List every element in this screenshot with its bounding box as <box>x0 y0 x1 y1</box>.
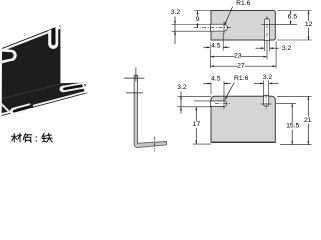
svg-text:R1.6: R1.6 <box>234 75 249 82</box>
svg-text:6.5: 6.5 <box>288 14 298 21</box>
svg-text:12: 12 <box>305 21 313 28</box>
svg-text:15.5: 15.5 <box>286 123 299 130</box>
svg-text:4.5: 4.5 <box>211 76 221 83</box>
svg-text:R1.6: R1.6 <box>236 0 251 7</box>
svg-text:21: 21 <box>304 117 312 124</box>
svg-text:3.2: 3.2 <box>171 9 181 16</box>
svg-text:17: 17 <box>193 121 201 128</box>
svg-text:27: 27 <box>237 62 245 69</box>
svg-text:23: 23 <box>234 53 242 60</box>
svg-text:9: 9 <box>196 16 200 23</box>
svg-text:3.2: 3.2 <box>177 84 187 91</box>
svg-text:3.2: 3.2 <box>263 74 273 81</box>
svg-text:4.5: 4.5 <box>211 43 221 50</box>
svg-text:3.2: 3.2 <box>282 45 292 52</box>
